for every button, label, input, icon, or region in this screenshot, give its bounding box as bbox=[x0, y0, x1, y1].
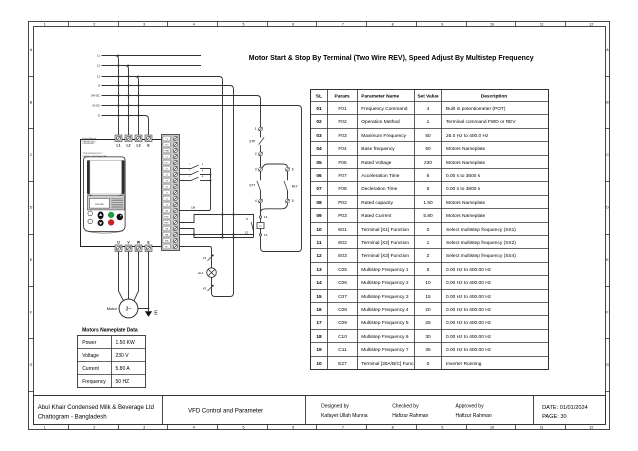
node 13 bbox=[259, 234, 261, 236]
wire RLY-node5 bbox=[287, 191, 289, 200]
VFD drive U1 (inverter) bbox=[81, 137, 162, 246]
svg-text:Multistep Frequency 7: Multistep Frequency 7 bbox=[361, 347, 409, 353]
disconnect K1 bbox=[203, 254, 214, 260]
svg-text:Select multistep frequency (SS: Select multistep frequency (SS1) bbox=[446, 227, 516, 233]
svg-text:15: 15 bbox=[316, 294, 322, 300]
svg-text:7: 7 bbox=[342, 22, 344, 26]
svg-text:4: 4 bbox=[193, 22, 195, 26]
svg-text:9: 9 bbox=[246, 217, 248, 221]
svg-text:C11: C11 bbox=[338, 347, 347, 353]
svg-text:C08: C08 bbox=[338, 307, 347, 313]
svg-text:0.00 Hz to 400.00 Hz: 0.00 Hz to 400.00 Hz bbox=[446, 280, 492, 286]
svg-text:L3: L3 bbox=[137, 144, 141, 148]
svg-text:Select multistep frequency (SS: Select multistep frequency (SS2) bbox=[446, 240, 516, 246]
svg-text:0: 0 bbox=[427, 361, 430, 367]
wire coil-node13 bbox=[260, 229, 262, 234]
VFD keypad panel bbox=[83, 157, 125, 233]
svg-text:E02: E02 bbox=[338, 240, 347, 246]
svg-text:Approved by: Approved by bbox=[456, 404, 485, 410]
svg-text:CM: CM bbox=[191, 205, 196, 209]
svg-text:2: 2 bbox=[427, 253, 430, 259]
svg-text:08: 08 bbox=[316, 200, 322, 206]
svg-text:F07: F07 bbox=[338, 173, 347, 179]
svg-text:Motor: Motor bbox=[107, 306, 118, 311]
svg-text:14: 14 bbox=[264, 215, 268, 219]
relay contact RLY (NO) bbox=[284, 181, 288, 191]
svg-text:C07: C07 bbox=[338, 294, 347, 300]
wire node6-RLY bbox=[287, 171, 289, 180]
svg-text:Hafizur Rahman: Hafizur Rahman bbox=[456, 413, 492, 419]
svg-text:04: 04 bbox=[316, 146, 322, 152]
svg-text:F: F bbox=[30, 311, 33, 315]
wire node3 branch to node6 bbox=[262, 164, 287, 168]
svg-text:230 V: 230 V bbox=[116, 353, 130, 359]
svg-text:05: 05 bbox=[316, 160, 322, 166]
junction jog at REV wire bbox=[193, 233, 195, 235]
svg-text:C: C bbox=[606, 153, 609, 157]
svg-text:09: 09 bbox=[316, 213, 322, 219]
wire E to ground bbox=[148, 252, 150, 311]
svg-text:1.50 KW: 1.50 KW bbox=[116, 340, 135, 346]
svg-text:18: 18 bbox=[316, 334, 322, 340]
svg-text:Abul Khair Condensed Milk & Be: Abul Khair Condensed Milk & Beverage Ltd bbox=[38, 405, 154, 411]
svg-text:E: E bbox=[98, 114, 100, 118]
svg-text:6: 6 bbox=[427, 186, 430, 192]
svg-text:Designed by: Designed by bbox=[321, 404, 349, 410]
svg-text:CM: CM bbox=[165, 228, 168, 230]
VFD input terminal L3 bbox=[135, 135, 142, 142]
svg-text:25: 25 bbox=[425, 320, 431, 326]
svg-text:50: 50 bbox=[425, 133, 431, 139]
svg-text:2: 2 bbox=[255, 152, 257, 156]
svg-text:X2: X2 bbox=[203, 286, 207, 290]
svg-text:X1: X1 bbox=[203, 256, 207, 260]
svg-text:F05: F05 bbox=[338, 160, 347, 166]
svg-text:L3: L3 bbox=[97, 75, 100, 79]
wire rail N (down to lamp circuit return) bbox=[102, 86, 234, 297]
push button STP (NC) bbox=[259, 137, 264, 144]
wire rail L1 bbox=[102, 55, 202, 57]
junction motor-E bbox=[148, 308, 150, 310]
svg-text:Operation Method: Operation Method bbox=[361, 119, 400, 125]
svg-text:1: 1 bbox=[44, 22, 46, 26]
switch SS1 (terminal X1) bbox=[180, 163, 211, 169]
svg-text:FWD: FWD bbox=[164, 216, 169, 218]
svg-text:0.00 Hz to 400.00 Hz: 0.00 Hz to 400.00 Hz bbox=[446, 334, 492, 340]
svg-text:0V DC: 0V DC bbox=[92, 104, 100, 108]
svg-text:C06: C06 bbox=[338, 280, 347, 286]
svg-text:HL1: HL1 bbox=[198, 271, 204, 275]
svg-text:30C: 30C bbox=[165, 246, 169, 248]
svg-text:Motors Nameplate: Motors Nameplate bbox=[446, 200, 486, 206]
wire U to motor bbox=[119, 252, 124, 301]
svg-text:230: 230 bbox=[424, 160, 432, 166]
svg-text:07: 07 bbox=[316, 186, 322, 192]
wire rail E (down to VFD terminal E) bbox=[102, 116, 149, 135]
wire crossing blobs bbox=[117, 64, 119, 66]
svg-text:1.50: 1.50 bbox=[423, 200, 433, 206]
svg-text:A: A bbox=[202, 169, 204, 172]
svg-text:0.00 s to 3600 s: 0.00 s to 3600 s bbox=[446, 173, 481, 179]
svg-text:11: 11 bbox=[316, 240, 321, 246]
switch SS2 (terminal X2) bbox=[180, 169, 211, 175]
node 5 bbox=[286, 199, 290, 203]
svg-text:16: 16 bbox=[316, 307, 322, 313]
svg-text:G: G bbox=[30, 363, 33, 367]
svg-text:12: 12 bbox=[589, 22, 593, 26]
svg-text:D: D bbox=[30, 206, 33, 210]
node 1 bbox=[259, 127, 263, 131]
wire lamp-K2 bbox=[211, 277, 213, 293]
svg-text:Base frequency: Base frequency bbox=[361, 146, 395, 152]
wire VFD CM to relay contact (jog down) bbox=[180, 229, 254, 238]
svg-text:Power: Power bbox=[82, 340, 97, 346]
svg-text:C05: C05 bbox=[338, 267, 347, 273]
lamp HL1 bbox=[198, 268, 216, 278]
svg-text:01: 01 bbox=[316, 106, 322, 112]
wire node4-node14 bbox=[260, 203, 262, 216]
svg-text:C: C bbox=[30, 153, 33, 157]
svg-text:12: 12 bbox=[245, 230, 249, 234]
svg-text:3: 3 bbox=[143, 426, 145, 430]
svg-text:4: 4 bbox=[255, 199, 257, 203]
junction L3 drop crossings bbox=[221, 213, 223, 215]
svg-text:19: 19 bbox=[316, 347, 322, 353]
svg-text:PAGE: 30: PAGE: 30 bbox=[542, 414, 566, 420]
svg-text:Motor Start & Stop By Terminal: Motor Start & Stop By Terminal (Two Wire… bbox=[249, 55, 534, 62]
svg-text:30: 30 bbox=[425, 334, 431, 340]
svg-text:5: 5 bbox=[243, 426, 245, 430]
svg-text:5.80 A: 5.80 A bbox=[116, 366, 131, 372]
wire node5 join bbox=[261, 203, 288, 212]
wire rail 24V DC (down to node 1) bbox=[102, 96, 261, 128]
node 4 bbox=[259, 199, 263, 203]
svg-text:Multistep Frequency 2: Multistep Frequency 2 bbox=[361, 280, 409, 286]
svg-text:6: 6 bbox=[427, 173, 430, 179]
svg-text:F03: F03 bbox=[338, 133, 347, 139]
relay R1 contact (terminals 9-12) bbox=[245, 217, 254, 234]
svg-text:PLC: PLC bbox=[165, 162, 169, 164]
svg-text:E01: E01 bbox=[338, 227, 347, 233]
svg-text:5.80: 5.80 bbox=[423, 213, 433, 219]
svg-text:Terminal [X2] Function: Terminal [X2] Function bbox=[361, 240, 409, 246]
wire VFD REV to relay contact 12 bbox=[180, 234, 254, 236]
svg-text:Multistep Frequency 3: Multistep Frequency 3 bbox=[361, 294, 409, 300]
wire STP-node2 bbox=[260, 145, 262, 152]
svg-text:1: 1 bbox=[189, 164, 190, 166]
svg-text:SL: SL bbox=[316, 93, 322, 99]
wire L1 drop bbox=[115, 56, 119, 135]
svg-text:Set Value: Set Value bbox=[417, 93, 439, 99]
svg-text:0.00 Hz to 400.00 Hz: 0.00 Hz to 400.00 Hz bbox=[446, 320, 492, 326]
svg-text:F04: F04 bbox=[338, 146, 347, 152]
svg-text:Y1C: Y1C bbox=[165, 144, 169, 146]
svg-text:3~: 3~ bbox=[126, 307, 132, 313]
svg-text:Current: Current bbox=[82, 366, 99, 372]
svg-text:Acceleration Time: Acceleration Time bbox=[361, 173, 399, 179]
svg-text:Motors Nameplate: Motors Nameplate bbox=[446, 146, 486, 152]
motor M1 bbox=[107, 299, 138, 318]
wire rail L2 bbox=[102, 65, 202, 67]
svg-text:F: F bbox=[606, 311, 609, 315]
svg-text:10: 10 bbox=[316, 361, 322, 367]
svg-text:0.00 Hz to 400.00 Hz: 0.00 Hz to 400.00 Hz bbox=[446, 267, 492, 273]
svg-text:12: 12 bbox=[589, 426, 593, 430]
svg-text:0.00 Hz to 400.00 Hz: 0.00 Hz to 400.00 Hz bbox=[446, 307, 492, 313]
svg-text:1: 1 bbox=[427, 119, 430, 125]
svg-text:F01: F01 bbox=[338, 106, 347, 112]
svg-text:STP: STP bbox=[249, 139, 255, 143]
svg-text:10: 10 bbox=[490, 426, 494, 430]
svg-text:Multistep Frequency 6: Multistep Frequency 6 bbox=[361, 334, 409, 340]
svg-text:13: 13 bbox=[264, 233, 268, 237]
VFD input terminal L2 bbox=[125, 135, 132, 142]
crossing N drop at contact wires bbox=[232, 213, 234, 215]
svg-text:RLY: RLY bbox=[292, 184, 299, 188]
svg-text:A: A bbox=[30, 48, 33, 52]
svg-text:1: 1 bbox=[427, 240, 430, 246]
svg-text:Motors Nameplate Data: Motors Nameplate Data bbox=[82, 328, 138, 334]
svg-text:1: 1 bbox=[255, 127, 257, 131]
svg-text:DATE: 01/01/2024: DATE: 01/01/2024 bbox=[542, 405, 588, 411]
node 14 bbox=[259, 216, 261, 218]
wire VFD FWD to relay contact 9 (jog up) bbox=[180, 215, 254, 238]
svg-text:6: 6 bbox=[292, 168, 294, 172]
svg-text:B: B bbox=[606, 101, 609, 105]
svg-text:9: 9 bbox=[441, 426, 443, 430]
svg-text:8: 8 bbox=[392, 426, 394, 430]
svg-text:Kafayet Ullah Munna: Kafayet Ullah Munna bbox=[321, 413, 368, 419]
svg-text:Terminal [X1] Function: Terminal [X1] Function bbox=[361, 227, 409, 233]
disconnect K2 bbox=[203, 285, 214, 291]
junction L1 drop bbox=[117, 54, 119, 56]
svg-text:6: 6 bbox=[292, 22, 294, 26]
svg-text:14: 14 bbox=[316, 280, 322, 286]
svg-text:5: 5 bbox=[292, 199, 294, 203]
title block bbox=[34, 396, 606, 425]
svg-text:VFD Control and Parameter: VFD Control and Parameter bbox=[188, 408, 263, 414]
wire W to motor bbox=[134, 252, 139, 301]
svg-text:50: 50 bbox=[425, 146, 431, 152]
svg-text:2: 2 bbox=[93, 22, 95, 26]
svg-text:10: 10 bbox=[425, 280, 431, 286]
svg-text:L2: L2 bbox=[127, 144, 131, 148]
wire motor to E bbox=[138, 308, 149, 310]
svg-text:03: 03 bbox=[316, 133, 322, 139]
svg-text:9: 9 bbox=[441, 22, 443, 26]
svg-text:8: 8 bbox=[392, 22, 394, 26]
switch SS3 (terminal X3) bbox=[180, 175, 211, 181]
wire rail 0V DC (down then to node 13) bbox=[102, 106, 302, 252]
svg-text:L1: L1 bbox=[97, 54, 100, 58]
svg-text:Select multistep frequency (SS: Select multistep frequency (SS4) bbox=[446, 253, 516, 259]
ground E bbox=[145, 311, 158, 317]
svg-text:0.00 Hz to 400.00 Hz: 0.00 Hz to 400.00 Hz bbox=[446, 347, 492, 353]
svg-text:Inverter Running: Inverter Running bbox=[446, 361, 482, 367]
svg-text:24V DC: 24V DC bbox=[91, 94, 100, 98]
svg-text:7: 7 bbox=[342, 426, 344, 430]
svg-text:3: 3 bbox=[255, 168, 257, 172]
svg-text:Motors Nameplate: Motors Nameplate bbox=[446, 160, 486, 166]
svg-text:Multistep Frequency 5: Multistep Frequency 5 bbox=[361, 320, 409, 326]
svg-text:5: 5 bbox=[427, 267, 430, 273]
svg-text:Frequency Command: Frequency Command bbox=[361, 106, 407, 112]
VFD control terminal strip bbox=[162, 135, 180, 251]
svg-text:L2: L2 bbox=[97, 64, 100, 68]
svg-text:35: 35 bbox=[425, 347, 431, 353]
svg-text:E: E bbox=[154, 311, 158, 317]
VFD input terminal E bbox=[145, 135, 152, 142]
wire V to motor bbox=[128, 252, 130, 299]
svg-text:1: 1 bbox=[189, 176, 190, 178]
svg-text:50 HZ: 50 HZ bbox=[116, 379, 130, 385]
svg-text:2: 2 bbox=[93, 426, 95, 430]
svg-text:E27: E27 bbox=[338, 361, 347, 367]
wire VFD 30C to lamp bbox=[180, 247, 212, 269]
push button STT (NO) bbox=[257, 181, 261, 191]
svg-text:Terminal [X3] Function: Terminal [X3] Function bbox=[361, 253, 409, 259]
junction SS3 common bbox=[210, 180, 212, 182]
relay coil R1 bbox=[257, 223, 264, 229]
svg-text:E: E bbox=[30, 258, 33, 262]
junction L3 drop bbox=[137, 75, 139, 77]
svg-text:REV: REV bbox=[165, 222, 170, 224]
svg-text:F02: F02 bbox=[338, 119, 347, 125]
svg-text:STT: STT bbox=[249, 183, 255, 187]
svg-text:C09: C09 bbox=[338, 320, 347, 326]
wire rail L3 (turns down to relay contact block) bbox=[102, 77, 223, 238]
svg-text:10: 10 bbox=[490, 22, 494, 26]
svg-text:1: 1 bbox=[189, 170, 190, 172]
svg-text:Checked by: Checked by bbox=[392, 404, 419, 410]
svg-text:Terminal [30A/B/C] Func.: Terminal [30A/B/C] Func. bbox=[361, 361, 414, 367]
svg-text:CM: CM bbox=[165, 210, 168, 212]
svg-text:Param.: Param. bbox=[335, 93, 351, 99]
svg-text:Hafizur Rahman: Hafizur Rahman bbox=[392, 413, 428, 419]
svg-text:Rated capacity: Rated capacity bbox=[361, 200, 393, 206]
svg-text:D: D bbox=[606, 206, 609, 210]
svg-text:DISPLAY: DISPLAY bbox=[95, 203, 105, 206]
svg-text:A: A bbox=[202, 163, 204, 166]
junction L2 drop bbox=[127, 64, 129, 66]
svg-text:Description: Description bbox=[481, 93, 507, 99]
svg-text:G: G bbox=[606, 363, 609, 367]
svg-text:F08: F08 bbox=[338, 186, 347, 192]
svg-text:5: 5 bbox=[243, 22, 245, 26]
svg-text:11: 11 bbox=[540, 426, 544, 430]
wire node2-node3 bbox=[260, 156, 262, 168]
svg-text:15: 15 bbox=[425, 294, 431, 300]
svg-text:0: 0 bbox=[427, 227, 430, 233]
svg-text:12: 12 bbox=[316, 253, 322, 259]
VFD input terminal L1 bbox=[115, 135, 122, 142]
svg-text:E03: E03 bbox=[338, 253, 347, 259]
motors nameplate data table bbox=[78, 328, 146, 388]
svg-text:C10: C10 bbox=[338, 334, 347, 340]
svg-text:10: 10 bbox=[316, 227, 322, 233]
svg-text:Terminal command FWD or REV: Terminal command FWD or REV bbox=[446, 119, 516, 125]
svg-text:Motors Nameplate: Motors Nameplate bbox=[446, 213, 486, 219]
svg-text:A: A bbox=[202, 175, 204, 178]
svg-text:Parameter Name: Parameter Name bbox=[361, 93, 399, 99]
svg-text:25.0 Hz to 400.0 Hz: 25.0 Hz to 400.0 Hz bbox=[446, 133, 489, 139]
svg-text:06: 06 bbox=[316, 173, 322, 179]
svg-text:17: 17 bbox=[316, 320, 322, 326]
svg-text:11: 11 bbox=[540, 22, 544, 26]
node 6 bbox=[286, 167, 290, 171]
node 3 bbox=[259, 167, 263, 171]
svg-text:N: N bbox=[98, 84, 100, 88]
wire L3 drop bbox=[135, 77, 139, 135]
svg-text:P03: P03 bbox=[338, 213, 347, 219]
svg-text:Built in potentiometer (POT): Built in potentiometer (POT) bbox=[446, 106, 506, 112]
VFD parameter table bbox=[311, 90, 549, 370]
svg-text:Frequency: Frequency bbox=[82, 379, 106, 385]
svg-text:3: 3 bbox=[143, 22, 145, 26]
svg-text:B: B bbox=[30, 101, 33, 105]
svg-text:20: 20 bbox=[425, 307, 431, 313]
wire switch common to CM bbox=[180, 169, 211, 211]
wire node14-coil bbox=[260, 218, 262, 222]
svg-text:Rated Voltage: Rated Voltage bbox=[361, 160, 391, 166]
svg-text:4: 4 bbox=[193, 426, 195, 430]
svg-text:E: E bbox=[606, 258, 609, 262]
node 2 bbox=[259, 152, 263, 156]
svg-text:Decleration Time: Decleration Time bbox=[361, 186, 397, 192]
wire L2 drop bbox=[125, 66, 129, 135]
svg-text:L1: L1 bbox=[117, 144, 121, 148]
svg-text:Rated Current: Rated Current bbox=[361, 213, 392, 219]
svg-text:Multistep Frequency 4: Multistep Frequency 4 bbox=[361, 307, 409, 313]
svg-text:TYPE FRN0010C2S-7: TYPE FRN0010C2S-7 bbox=[83, 153, 104, 155]
svg-text:Chattogram - Bangladesh: Chattogram - Bangladesh bbox=[38, 414, 107, 420]
svg-text:0.00 Hz to 400.00 Hz: 0.00 Hz to 400.00 Hz bbox=[446, 294, 492, 300]
svg-text:Maximum Frequency: Maximum Frequency bbox=[361, 133, 406, 139]
svg-text:FMA: FMA bbox=[164, 149, 169, 152]
svg-text:Voltage: Voltage bbox=[82, 353, 99, 359]
svg-text:02: 02 bbox=[316, 119, 322, 125]
svg-text:A: A bbox=[606, 48, 609, 52]
svg-text:P02: P02 bbox=[338, 200, 347, 206]
svg-text:13: 13 bbox=[316, 267, 322, 273]
wire node3-STT bbox=[260, 171, 262, 180]
wire node1-STP bbox=[260, 131, 262, 138]
junction SS2 common bbox=[210, 174, 212, 176]
wire STT-node4 bbox=[260, 191, 262, 200]
svg-text:4: 4 bbox=[427, 106, 430, 112]
svg-text:Multistep Frequency 1: Multistep Frequency 1 bbox=[361, 267, 409, 273]
svg-text:6: 6 bbox=[292, 426, 294, 430]
svg-text:1: 1 bbox=[44, 426, 46, 430]
svg-text:0.00 s to 3600 s: 0.00 s to 3600 s bbox=[446, 186, 481, 192]
